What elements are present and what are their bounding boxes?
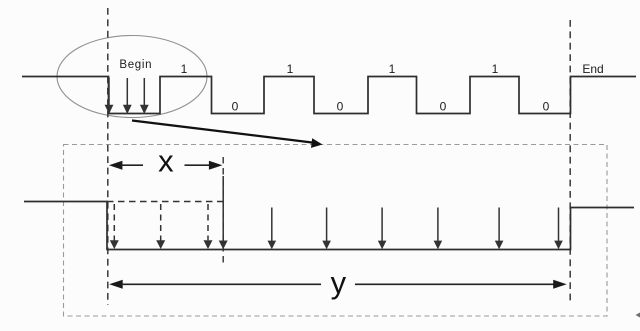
svg-text:1: 1 — [181, 62, 188, 76]
svg-text:0: 0 — [232, 100, 239, 114]
svg-text:Begin: Begin — [119, 59, 152, 71]
svg-text:1: 1 — [492, 62, 499, 76]
svg-text:x: x — [158, 144, 174, 179]
svg-text:1: 1 — [287, 62, 294, 76]
svg-text:0: 0 — [440, 100, 447, 114]
svg-text:0: 0 — [337, 100, 344, 114]
svg-text:0: 0 — [543, 100, 550, 114]
svg-text:1: 1 — [389, 62, 396, 76]
svg-text:y: y — [331, 265, 347, 300]
svg-text:End: End — [582, 62, 603, 76]
